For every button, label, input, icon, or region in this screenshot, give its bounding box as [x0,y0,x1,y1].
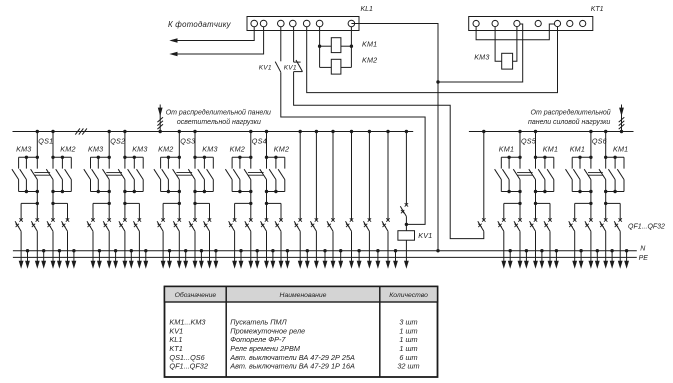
neutral drop arrow [508,249,513,269]
svg-text:1 шт: 1 шт [399,344,417,353]
svg-text:Авт. выключатели ВА 47-29 2Р 2: Авт. выключатели ВА 47-29 2Р 25А [229,353,355,362]
mechanical link QS4 [248,173,264,176]
bus break mark [75,128,87,134]
breaker QF at x=37 [31,218,39,231]
svg-text:QS3: QS3 [180,136,195,145]
wire bus tap left QS4 [250,132,252,158]
svg-text:Пускатель ПМЛ: Пускатель ПМЛ [230,318,287,327]
load arrow [123,231,128,269]
breaker QF at x=281 [275,218,283,231]
mechanical link QS5 [517,173,533,176]
load arrow [19,231,24,269]
wire output bar left KM3 [93,192,111,221]
load arrow [232,231,237,269]
load arrow [137,231,142,269]
breaker QF at x=163 [157,218,165,231]
svg-text:Фотореле ФР-7: Фотореле ФР-7 [230,335,286,344]
wire output bar left KM2 [163,192,181,221]
wire bus tap right QS6 [605,132,607,158]
svg-text:KT1: KT1 [169,344,182,353]
breaker QF direct drop x=300 [294,130,302,231]
svg-text:QS2: QS2 [110,136,125,145]
neutral drop arrow [554,249,559,269]
neutral drop arrow [524,249,529,269]
load arrow [548,231,553,269]
wire bus tap left QS5 [519,132,521,158]
svg-text:KV1: KV1 [259,65,272,72]
neutral drop arrow [393,249,398,269]
svg-text:KM1: KM1 [362,40,377,49]
breaker QF at x=591 [585,218,593,231]
neutral drop arrow [338,249,343,269]
breaker QF at x=93 [87,218,95,231]
wire bus tap left QS2 [108,132,110,158]
svg-text:PE: PE [639,255,649,262]
mechanical link QS3 [176,173,192,176]
breaker QF at x=21 [15,218,23,231]
relay contact KV1 (NC) [284,27,303,72]
left distribution bus [13,131,414,133]
svg-text:KM2: KM2 [274,145,289,154]
svg-text:KM1: KM1 [499,145,514,154]
svg-text:KV1: KV1 [169,326,183,335]
load arrow [572,231,577,269]
wire bus tap right QS4 [266,132,268,158]
neutral drop arrow [25,249,30,269]
wire bus tap left QS1 [36,132,38,158]
svg-text:1 шт: 1 шт [399,326,417,335]
svg-text:KL1: KL1 [169,335,182,344]
wire KT1 pin2 to KM3 coil [495,27,502,62]
neutral drop arrow [214,249,219,269]
load arrow [193,231,198,269]
breaker group QS2 [108,130,127,158]
contactor contacts KM3 (left) [84,156,111,194]
coil KM3 [502,53,513,69]
N bus [13,250,637,252]
svg-text:KM2: KM2 [230,145,245,154]
neutral drop arrow [624,249,629,269]
load arrow [161,231,166,269]
neutral drop arrow [610,249,615,269]
neutral drop arrow [239,249,244,269]
PE bus [13,256,637,258]
load arrow [331,231,336,269]
neutral drop arrow [97,249,102,269]
relay coil KV1 [398,224,415,240]
svg-text:KV1: KV1 [418,231,432,240]
table header [175,291,429,299]
breaker group QS5 [518,130,537,158]
svg-text:QS5: QS5 [521,136,537,145]
breaker QF (KV1 relay branch) [400,130,408,226]
breaker QF direct drop x=352 [346,130,354,231]
wire bus tap left QS6 [590,132,592,158]
svg-text:KM2: KM2 [362,55,377,64]
breaker group QS1 [36,130,55,158]
svg-text:От распределительной панели: От распределительной панели [166,109,271,117]
load arrow [501,231,506,269]
load arrow [367,231,372,269]
wire KL1 pin7 to coils [341,27,353,68]
wire KT1 pin3 to KM3 coil [513,27,517,62]
wire bus tap right QS1 [52,132,54,158]
contactor contacts KM3 (right) [118,156,143,194]
contactor contacts KM3 (right) [188,156,213,194]
load arrow [91,231,96,269]
load arrow [386,231,391,269]
wire KV1 NC contact to QF feed [294,72,484,239]
neutral drop arrow [143,249,148,269]
breaker QF at x=550 [544,218,552,231]
svg-text:QS4: QS4 [252,136,267,145]
breaker QF direct drop x=369 [363,130,371,231]
svg-text:KT1: KT1 [591,6,604,13]
wire KT1 pin1 to pin5 [476,24,554,40]
wire node to KT1 pin3 [438,24,523,82]
table row KV1 [169,326,417,335]
wire KL1 pin1 to photo sensor [169,27,254,43]
svg-text:32 шт: 32 шт [397,362,419,371]
svg-text:Количество: Количество [389,292,428,299]
wire output bar right KM1 [534,192,550,221]
wire output bar right KM3 [123,192,139,221]
svg-text:KM3: KM3 [474,53,489,62]
breaker QF at x=125 [119,218,127,231]
load arrow [603,231,608,269]
svg-text:KM1: KM1 [613,145,628,154]
wire KL1 pin5 to KT1 pin5 [307,27,558,93]
breaker QF at x=235 [229,218,237,231]
breaker QF at x=536 [530,218,538,231]
contactor contacts KM3 (left) [12,156,39,194]
neutral drop arrow [540,249,545,269]
neutral drop arrow [129,249,134,269]
svg-text:KM3: KM3 [88,145,103,154]
svg-text:Обозначение: Обозначение [175,291,217,299]
load arrow [314,231,319,269]
breaker QF at x=520 [514,218,522,231]
svg-text:KM2: KM2 [158,145,173,154]
svg-text:3 шт: 3 шт [399,318,417,327]
svg-text:QS1: QS1 [38,136,53,145]
neutral drop arrow [199,249,204,269]
contactor contacts KM2 (right) [260,156,285,194]
svg-text:осветительной нагрузки: осветительной нагрузки [177,118,261,126]
coil KM1 [331,38,341,53]
breaker QF direct drop x=388 [382,130,390,231]
load arrow [589,231,594,269]
wire bus tap left QS3 [178,132,180,158]
contactor contacts KM1 (right) [599,156,624,194]
right distribution bus [469,131,634,133]
load arrow [248,231,253,269]
breaker group QS4 [249,130,268,158]
breaker QF at x=251 [245,218,253,231]
breaker QF at x=109 [103,218,111,231]
contactor contacts KM1 (left) [566,156,593,194]
breaker QF at x=620 [614,218,622,231]
svg-text:KM3: KM3 [16,145,31,154]
neutral drop arrow [285,249,290,269]
wire output bar left KM1 [575,192,593,221]
neutral drop arrow [72,249,77,269]
wire output bar right KM2 [51,192,67,221]
table row KT1 [169,344,417,353]
svg-text:KM3: KM3 [132,145,147,154]
breaker QF direct drop x=316 [310,130,318,231]
wire bus tap right QS5 [535,132,537,158]
wire KL1 pin7 to N bus [351,24,439,253]
load arrow [177,231,182,269]
neutral drop arrow [579,249,584,269]
load arrow [533,231,538,269]
load arrow [298,231,303,269]
svg-text:Реле времени 2РВМ: Реле времени 2РВМ [230,344,301,353]
svg-text:От распределительной: От распределительной [531,109,611,117]
contactor contacts KM2 (left) [154,156,181,194]
table row KL1 [169,335,417,344]
load arrow [207,231,212,269]
wire output bar right KM3 [193,192,209,221]
breaker group QS3 [178,130,197,158]
load arrow [51,231,56,269]
neutral drop arrow [595,249,600,269]
wire output bar left KM1 [504,192,522,221]
label От распределительной панели осветительной нагрузки [166,109,271,127]
load arrow [518,231,523,269]
neutral drop arrow [376,249,381,269]
svg-text:KM3: KM3 [202,145,217,154]
breaker QF at x=68 [62,218,70,231]
mechanical link QS2 [106,173,122,176]
neutral drop arrow [41,249,46,269]
breaker QF at x=195 [189,218,197,231]
wire output bar right KM2 [265,192,281,221]
neutral drop arrow [255,249,260,269]
svg-text:6 шт: 6 шт [399,353,417,362]
supply feed left (lighting) [157,105,163,134]
wire output bar right KM1 [604,192,620,221]
neutral drop arrow [167,249,172,269]
contactor contacts KM2 (left) [225,156,252,194]
neutral drop arrow [271,249,276,269]
wire bus tap right QS3 [194,132,196,158]
svg-text:KV1: KV1 [284,65,297,72]
svg-text:QS6: QS6 [592,136,607,145]
terminal block KT1 [469,17,593,31]
neutral drop arrow [113,249,118,269]
breaker QF at x=53 [47,218,55,231]
wire KV1 coil to load arrow [404,240,409,269]
breaker group QS6 [589,130,607,158]
load arrow [107,231,112,269]
svg-text:1 шт: 1 шт [399,335,417,344]
wire KL1 pin2 to photo sensor [169,27,263,56]
breaker QF at x=139 [133,218,141,231]
neutral drop arrow [57,249,62,269]
terminal block KL1 [247,17,359,31]
svg-text:KM2: KM2 [60,145,75,154]
breaker QF at x=575 [569,218,577,231]
table row KM1...KM3 [169,318,417,327]
breaker QF at x=179 [173,218,181,231]
svg-text:К фотодатчику: К фотодатчику [168,20,232,29]
svg-text:QF1...QF32: QF1...QF32 [628,223,665,230]
label От распределительной панели силовой нагрузки [528,109,611,127]
component table [165,287,438,378]
svg-text:KM1: KM1 [543,145,558,154]
table row QS1...QS6 [169,353,417,362]
load arrow [35,231,40,269]
wire output bar left KM2 [235,192,253,221]
neutral drop arrow [305,249,310,269]
neutral drop arrow [323,249,328,269]
svg-text:QS1...QS6: QS1...QS6 [169,353,205,362]
svg-text:KL1: KL1 [361,6,374,13]
wire output bar left KM3 [21,192,39,221]
contactor contacts KM1 (left) [495,156,522,194]
load arrow [349,231,354,269]
svg-text:KM1: KM1 [570,145,585,154]
breaker QF at x=504 [498,218,506,231]
breaker QF at x=210 [204,218,212,231]
svg-text:KM1...KM3: KM1...KM3 [169,318,205,327]
mechanical link QS6 [588,173,603,176]
breaker QF at x=266 [261,218,269,231]
mechanical link QS1 [34,173,50,176]
svg-text:QF1...QF32: QF1...QF32 [169,362,208,371]
neutral drop arrow [357,249,362,269]
load arrow [618,231,623,269]
contactor contacts KM1 (right) [529,156,554,194]
wire KV1 NO contact to relay node [281,72,425,224]
load arrow [279,231,284,269]
svg-text:Промежуточное реле: Промежуточное реле [230,326,305,335]
breaker QF at x=606 [600,218,608,231]
relay contact KV1 (NO) [259,27,281,72]
load arrow [65,231,70,269]
neutral drop arrow [183,249,188,269]
coil KM2 [331,59,341,74]
table row QF1...QF32 [169,362,419,371]
load arrow [264,231,269,269]
breaker QF (KV1 circuit feed) [478,130,486,231]
breaker QF direct drop x=333 [327,130,335,231]
wire bus tap right QS2 [124,132,126,158]
svg-text:Наименование: Наименование [280,292,327,299]
wire KL1 pin6 to coils [318,27,331,68]
contactor contacts KM2 (right) [46,156,71,194]
svg-text:панели силовой нагрузки: панели силовой нагрузки [528,118,610,126]
svg-text:Авт. выключатели ВА 47-29 1Р 1: Авт. выключатели ВА 47-29 1Р 16А [229,362,355,371]
supply feed right (power) [619,105,625,134]
